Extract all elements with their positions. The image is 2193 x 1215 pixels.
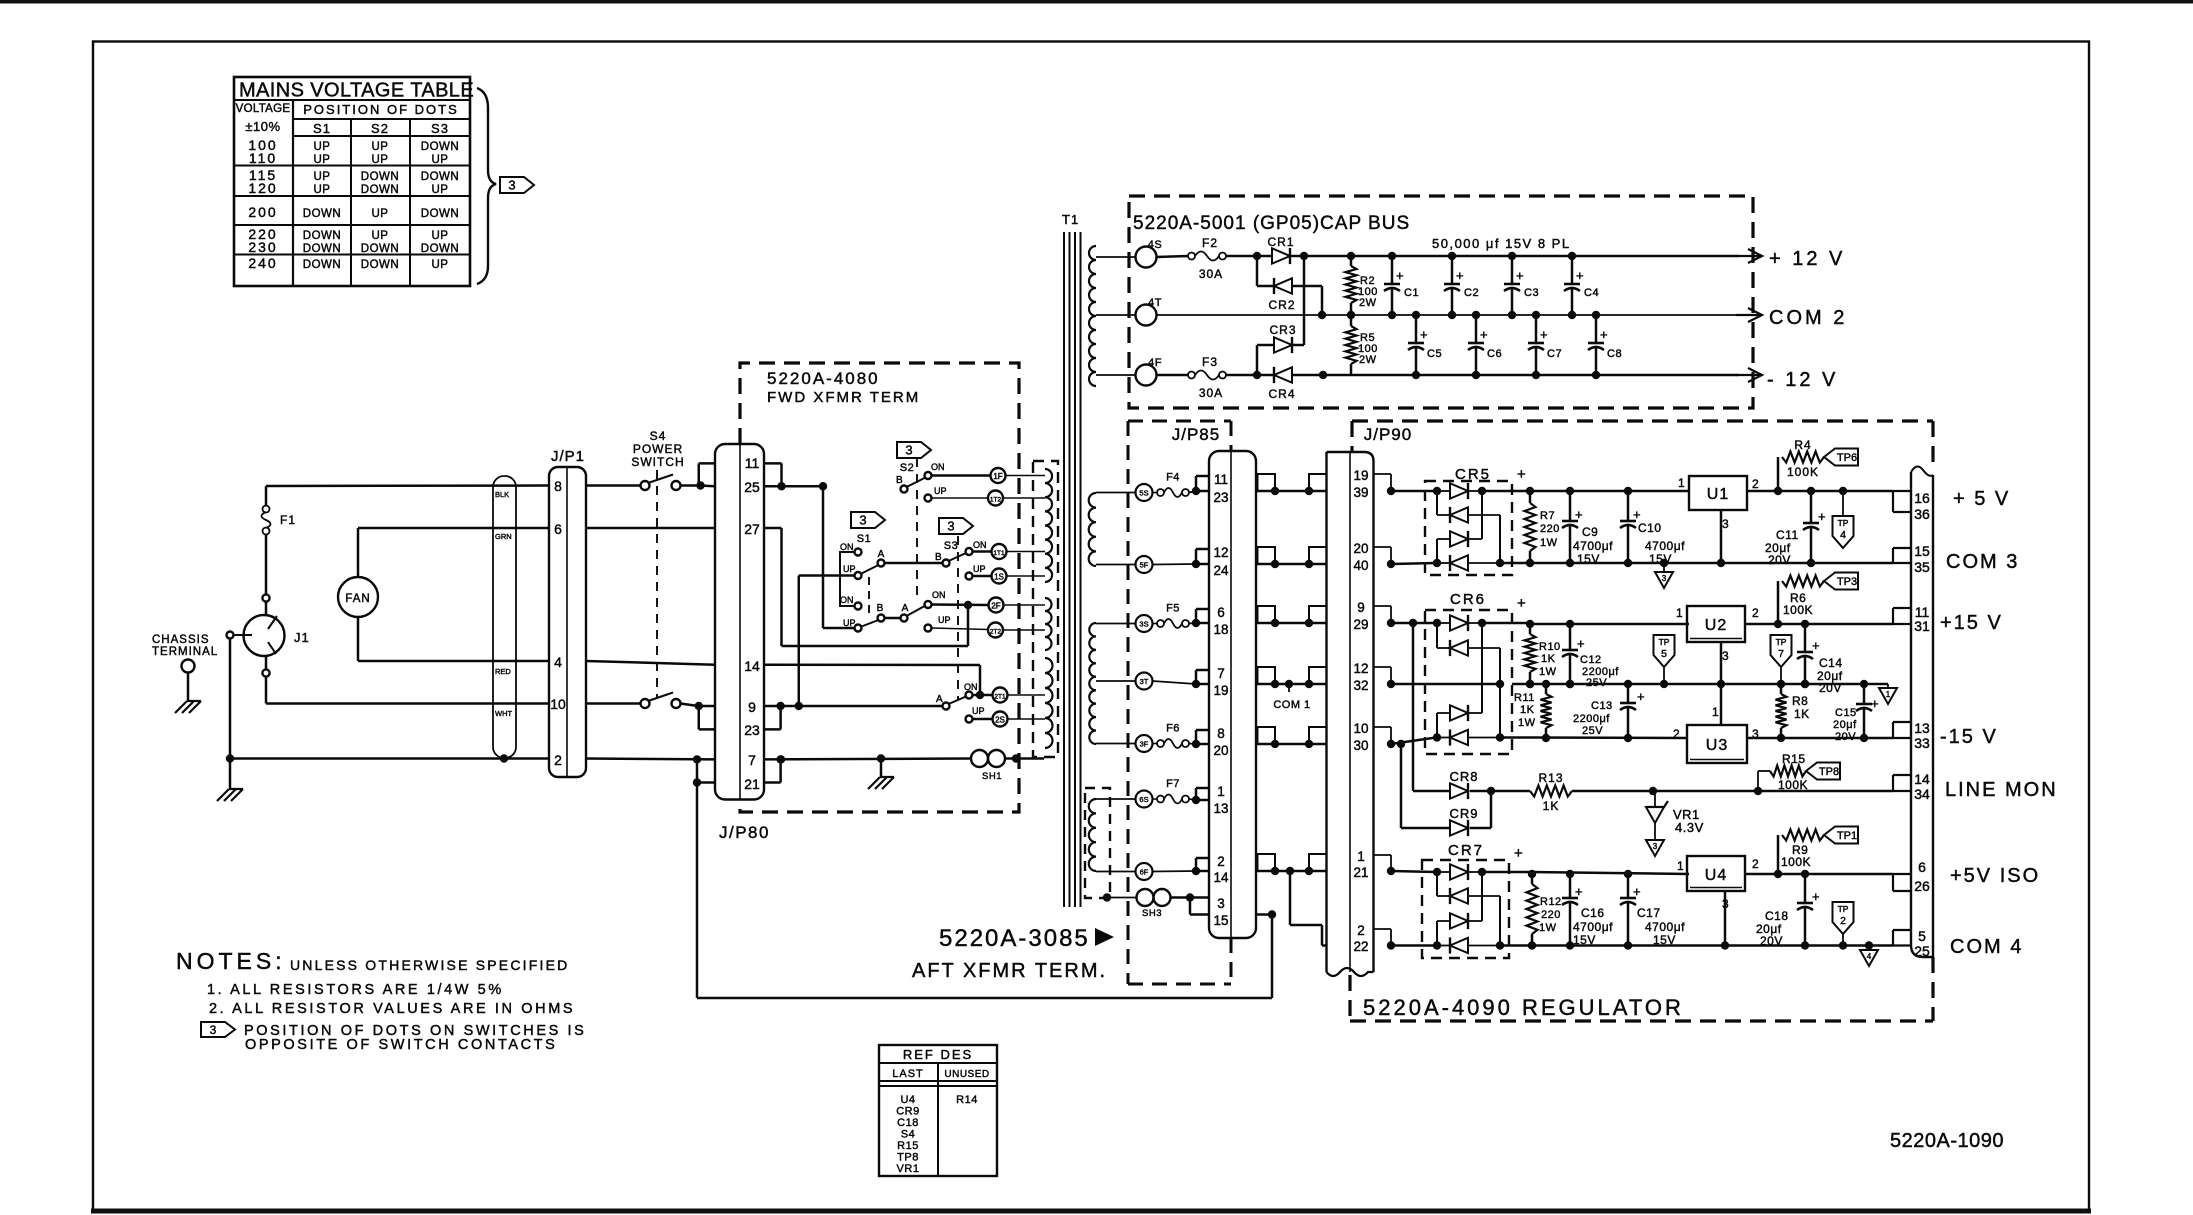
svg-text:2T2: 2T2 xyxy=(990,629,1002,636)
svg-text:50,000 μf 15V 8 PL: 50,000 μf 15V 8 PL xyxy=(1432,236,1571,251)
svg-text:F4: F4 xyxy=(1166,472,1180,484)
svg-text:12: 12 xyxy=(1353,661,1368,676)
svg-text:MAINS VOLTAGE TABLE: MAINS VOLTAGE TABLE xyxy=(239,80,474,102)
svg-text:DOWN: DOWN xyxy=(361,259,399,271)
svg-text:+: + xyxy=(1812,638,1820,653)
svg-text:C15: C15 xyxy=(1835,707,1857,719)
svg-text:4F: 4F xyxy=(1148,357,1162,369)
svg-text:DOWN: DOWN xyxy=(421,208,459,220)
svg-text:1K: 1K xyxy=(1520,704,1535,716)
svg-text:CR9: CR9 xyxy=(1449,806,1478,821)
svg-text:TP: TP xyxy=(1838,904,1849,914)
svg-text:R11: R11 xyxy=(1514,692,1535,704)
svg-text:DOWN: DOWN xyxy=(421,243,459,255)
svg-text:1: 1 xyxy=(1676,606,1683,620)
svg-text:DOWN: DOWN xyxy=(303,259,341,271)
svg-text:UNLESS OTHERWISE SPECIFIED: UNLESS OTHERWISE SPECIFIED xyxy=(290,957,569,973)
svg-text:3: 3 xyxy=(210,1023,217,1037)
svg-text:4: 4 xyxy=(1840,529,1846,541)
svg-text:C9: C9 xyxy=(1582,525,1598,539)
svg-text:OPPOSITE OF SWITCH CONTACTS: OPPOSITE OF SWITCH CONTACTS xyxy=(245,1037,557,1053)
svg-text:+: + xyxy=(1637,689,1645,704)
svg-text:C10: C10 xyxy=(1638,521,1662,535)
svg-text:C8: C8 xyxy=(1607,348,1622,360)
svg-text:6: 6 xyxy=(1918,859,1926,875)
svg-text:+: + xyxy=(1420,327,1428,342)
svg-text:-15 V: -15 V xyxy=(1940,726,1998,748)
svg-text:15: 15 xyxy=(1213,913,1228,928)
svg-text:TP8: TP8 xyxy=(897,1152,919,1164)
svg-text:13: 13 xyxy=(1213,801,1228,816)
svg-text:6S: 6S xyxy=(1139,795,1148,804)
svg-text:UP: UP xyxy=(973,564,986,574)
svg-text:R12: R12 xyxy=(1540,896,1562,908)
svg-text:TP: TP xyxy=(1776,637,1787,647)
svg-text:UNUSED: UNUSED xyxy=(944,1069,989,1080)
svg-text:TP1: TP1 xyxy=(1837,830,1857,842)
svg-text:J/P80: J/P80 xyxy=(719,823,770,842)
svg-text:20: 20 xyxy=(1213,743,1228,758)
svg-text:36: 36 xyxy=(1914,506,1930,522)
svg-text:23: 23 xyxy=(744,722,760,738)
svg-text:BLK: BLK xyxy=(495,490,509,499)
svg-text:3: 3 xyxy=(1653,842,1658,851)
svg-text:1: 1 xyxy=(1677,859,1684,873)
svg-text:5S: 5S xyxy=(1139,489,1148,498)
svg-text:3S: 3S xyxy=(1139,620,1148,629)
svg-text:C13: C13 xyxy=(1591,700,1613,712)
svg-text:A: A xyxy=(878,549,885,560)
svg-text:2T1: 2T1 xyxy=(994,694,1006,701)
svg-text:34: 34 xyxy=(1914,786,1930,802)
svg-text:11: 11 xyxy=(745,455,760,471)
svg-text:C2: C2 xyxy=(1464,287,1479,299)
svg-text:19: 19 xyxy=(1353,468,1368,483)
svg-text:20V: 20V xyxy=(1835,731,1856,743)
svg-text:20μf: 20μf xyxy=(1833,719,1857,731)
svg-text:S3: S3 xyxy=(431,121,449,136)
svg-text:+: + xyxy=(1871,696,1879,711)
svg-text:C14: C14 xyxy=(1819,656,1843,670)
svg-text:110: 110 xyxy=(249,150,277,166)
svg-text:7: 7 xyxy=(1217,666,1225,681)
svg-text:B: B xyxy=(935,552,942,563)
svg-text:+ 5 V: + 5 V xyxy=(1953,488,2010,510)
svg-text:12: 12 xyxy=(1213,545,1228,560)
svg-text:4: 4 xyxy=(554,654,562,670)
svg-text:+: + xyxy=(1456,268,1464,283)
svg-text:COM 1: COM 1 xyxy=(1273,699,1310,711)
svg-text:GRN: GRN xyxy=(495,532,512,541)
svg-text:19: 19 xyxy=(1213,683,1228,698)
svg-text:29: 29 xyxy=(1353,617,1368,632)
svg-text:+: + xyxy=(1540,327,1548,342)
svg-text:16: 16 xyxy=(1914,490,1930,506)
svg-text:+ 12 V: + 12 V xyxy=(1769,248,1845,270)
svg-text:DOWN: DOWN xyxy=(421,171,459,183)
svg-text:DOWN: DOWN xyxy=(303,230,341,242)
svg-text:F6: F6 xyxy=(1166,723,1180,735)
svg-text:S1: S1 xyxy=(313,121,331,136)
svg-text:FAN: FAN xyxy=(345,593,370,605)
svg-text:R14: R14 xyxy=(956,1094,978,1106)
svg-text:100K: 100K xyxy=(1787,465,1819,479)
svg-text:15: 15 xyxy=(1914,543,1930,559)
svg-text:POSITION OF DOTS: POSITION OF DOTS xyxy=(303,102,459,117)
svg-text:UP: UP xyxy=(843,564,856,574)
svg-text:3: 3 xyxy=(1662,574,1667,583)
svg-text:R10: R10 xyxy=(1539,641,1561,653)
svg-text:4700μf: 4700μf xyxy=(1645,539,1685,553)
svg-text:CR4: CR4 xyxy=(1268,387,1295,401)
svg-text:J/P90: J/P90 xyxy=(1364,425,1412,444)
svg-text:COM 4: COM 4 xyxy=(1950,936,2023,958)
svg-text:S4: S4 xyxy=(901,1129,915,1141)
svg-text:120: 120 xyxy=(248,180,277,196)
svg-text:3: 3 xyxy=(1722,649,1729,663)
svg-text:25V: 25V xyxy=(1582,725,1603,737)
svg-text:C17: C17 xyxy=(1637,906,1661,920)
svg-text:3: 3 xyxy=(947,519,954,534)
svg-text:+: + xyxy=(1517,466,1526,483)
svg-text:+5V ISO: +5V ISO xyxy=(1950,865,2040,887)
svg-text:25: 25 xyxy=(744,479,760,495)
svg-text:1K: 1K xyxy=(1541,653,1556,665)
svg-text:NOTES:: NOTES: xyxy=(176,948,286,974)
svg-text:DOWN: DOWN xyxy=(361,243,399,255)
svg-text:C7: C7 xyxy=(1547,348,1562,360)
svg-text:COM 3: COM 3 xyxy=(1946,551,2019,573)
svg-text:C16: C16 xyxy=(1581,906,1605,920)
svg-text:U1: U1 xyxy=(1707,486,1729,503)
svg-text:R7: R7 xyxy=(1540,510,1555,522)
svg-text:2W: 2W xyxy=(1359,354,1377,366)
svg-text:U2: U2 xyxy=(1705,617,1727,634)
svg-text:11: 11 xyxy=(1214,472,1228,487)
svg-text:13: 13 xyxy=(1914,720,1930,736)
svg-text:1K: 1K xyxy=(1543,799,1560,813)
svg-text:UP: UP xyxy=(938,615,951,625)
svg-text:25: 25 xyxy=(1914,943,1930,959)
svg-text:CR2: CR2 xyxy=(1268,298,1295,312)
svg-text:ON: ON xyxy=(840,595,854,605)
svg-text:10: 10 xyxy=(550,696,566,712)
svg-text:DOWN: DOWN xyxy=(303,208,341,220)
svg-text:C18: C18 xyxy=(1765,909,1789,923)
svg-text:5F: 5F xyxy=(1140,561,1149,570)
svg-text:20V: 20V xyxy=(1768,553,1791,567)
svg-text:F3: F3 xyxy=(1202,355,1218,369)
svg-text:UP: UP xyxy=(972,706,985,716)
svg-text:3F: 3F xyxy=(1140,740,1149,749)
svg-text:+15 V: +15 V xyxy=(1940,612,2003,634)
svg-text:DOWN: DOWN xyxy=(303,243,341,255)
svg-text:4T: 4T xyxy=(1148,297,1162,309)
svg-text:1: 1 xyxy=(1886,690,1891,699)
svg-text:1: 1 xyxy=(1712,705,1719,719)
svg-text:A: A xyxy=(936,694,943,705)
svg-text:3: 3 xyxy=(905,443,912,458)
svg-text:2: 2 xyxy=(1752,606,1759,620)
svg-text:UP: UP xyxy=(934,486,947,496)
svg-text:+: + xyxy=(1577,636,1585,651)
svg-text:3: 3 xyxy=(508,178,515,193)
svg-text:220: 220 xyxy=(1540,523,1560,535)
svg-text:4700μf: 4700μf xyxy=(1573,539,1613,553)
svg-text:2: 2 xyxy=(1752,477,1759,491)
svg-text:UP: UP xyxy=(432,259,449,271)
svg-text:1W: 1W xyxy=(1540,537,1558,549)
svg-text:5220A-4080: 5220A-4080 xyxy=(767,369,880,388)
svg-text:10: 10 xyxy=(1353,721,1368,736)
svg-text:18: 18 xyxy=(1213,622,1228,637)
svg-text:UP: UP xyxy=(314,154,331,166)
svg-text:100K: 100K xyxy=(1781,855,1811,869)
svg-text:- 12 V: - 12 V xyxy=(1767,369,1838,391)
svg-text:UP: UP xyxy=(432,184,449,196)
svg-text:UP: UP xyxy=(314,184,331,196)
svg-text:UP: UP xyxy=(372,230,389,242)
svg-text:UP: UP xyxy=(372,208,389,220)
svg-text:UP: UP xyxy=(432,154,449,166)
svg-text:J/P1: J/P1 xyxy=(551,448,585,465)
svg-text:1W: 1W xyxy=(1518,717,1536,729)
svg-text:SWITCH: SWITCH xyxy=(631,455,684,469)
svg-text:J/P85: J/P85 xyxy=(1172,425,1220,444)
svg-text:C11: C11 xyxy=(1776,528,1799,542)
svg-text:UP: UP xyxy=(432,230,449,242)
svg-text:14: 14 xyxy=(1213,870,1229,885)
svg-text:+: + xyxy=(1633,884,1641,899)
svg-text:2S: 2S xyxy=(995,716,1005,725)
svg-text:S2: S2 xyxy=(371,121,389,136)
svg-text:ON: ON xyxy=(964,682,978,692)
svg-text:5220A-1090: 5220A-1090 xyxy=(1890,1130,2004,1152)
svg-text:8: 8 xyxy=(554,478,562,494)
svg-text:40: 40 xyxy=(1353,558,1368,573)
svg-text:R15: R15 xyxy=(1782,752,1806,766)
svg-text:100K: 100K xyxy=(1778,778,1808,792)
svg-text:SH3: SH3 xyxy=(1142,908,1162,919)
svg-text:20: 20 xyxy=(1353,541,1368,556)
svg-text:21: 21 xyxy=(1353,865,1368,880)
svg-text:35: 35 xyxy=(1914,559,1930,575)
svg-text:U4: U4 xyxy=(900,1094,915,1106)
svg-text:TP3: TP3 xyxy=(1837,576,1857,588)
svg-text:2: 2 xyxy=(1673,727,1680,741)
svg-text:ON: ON xyxy=(973,540,987,550)
svg-text:C6: C6 xyxy=(1487,348,1502,360)
svg-text:B: B xyxy=(877,603,884,614)
svg-text:+: + xyxy=(1480,327,1488,342)
svg-text:SH1: SH1 xyxy=(982,771,1002,782)
svg-text:3: 3 xyxy=(1722,517,1729,531)
svg-text:6: 6 xyxy=(1217,605,1225,620)
svg-text:TP: TP xyxy=(1838,518,1849,528)
svg-text:3: 3 xyxy=(1217,896,1225,911)
svg-text:4700μf: 4700μf xyxy=(1645,920,1685,934)
svg-text:4.3V: 4.3V xyxy=(1675,820,1704,835)
svg-text:+: + xyxy=(1818,509,1826,524)
svg-text:5220A-4090 REGULATOR: 5220A-4090 REGULATOR xyxy=(1363,995,1684,1020)
svg-text:FWD XFMR TERM: FWD XFMR TERM xyxy=(767,389,920,406)
svg-text:VR1: VR1 xyxy=(897,1163,920,1175)
svg-text:ON: ON xyxy=(931,462,945,472)
svg-text:F5: F5 xyxy=(1166,603,1180,615)
svg-text:+: + xyxy=(1516,268,1524,283)
svg-text:2. ALL RESISTOR VALUES ARE: 2. ALL RESISTOR VALUES ARE IN OHMS xyxy=(209,1001,575,1017)
svg-text:TP: TP xyxy=(1659,637,1670,647)
svg-text:21: 21 xyxy=(744,776,760,792)
svg-text:S3: S3 xyxy=(944,540,958,552)
svg-text:+: + xyxy=(1812,889,1820,904)
svg-text:COM 2: COM 2 xyxy=(1769,307,1847,329)
svg-text:23: 23 xyxy=(1213,490,1228,505)
svg-text:22: 22 xyxy=(1353,939,1368,954)
svg-text:+: + xyxy=(1514,845,1523,862)
svg-text:S4: S4 xyxy=(650,429,667,443)
svg-text:LAST: LAST xyxy=(892,1068,924,1080)
svg-text:7: 7 xyxy=(748,752,756,768)
svg-text:5220A-3085: 5220A-3085 xyxy=(939,925,1090,952)
svg-text:±10%: ±10% xyxy=(245,119,280,134)
svg-text:R13: R13 xyxy=(1538,771,1563,785)
svg-text:3T: 3T xyxy=(1140,677,1149,686)
svg-text:2: 2 xyxy=(554,752,562,768)
svg-text:A: A xyxy=(902,603,909,614)
svg-text:CR9: CR9 xyxy=(896,1106,920,1118)
svg-text:+: + xyxy=(1600,327,1608,342)
svg-text:B: B xyxy=(896,475,903,486)
svg-text:32: 32 xyxy=(1353,678,1368,693)
svg-text:S1: S1 xyxy=(857,533,871,545)
svg-text:230: 230 xyxy=(248,239,277,255)
svg-text:CR3: CR3 xyxy=(1269,323,1296,337)
svg-text:REF DES: REF DES xyxy=(903,1047,973,1062)
svg-text:2200μf: 2200μf xyxy=(1573,713,1610,725)
svg-text:VOLTAGE: VOLTAGE xyxy=(236,103,291,115)
svg-text:+: + xyxy=(1575,884,1583,899)
svg-text:UP: UP xyxy=(372,154,389,166)
svg-text:33: 33 xyxy=(1914,735,1930,751)
svg-text:27: 27 xyxy=(744,521,760,537)
svg-text:LINE MON: LINE MON xyxy=(1945,779,2058,801)
svg-text:ON: ON xyxy=(840,542,854,552)
svg-text:F7: F7 xyxy=(1166,778,1180,790)
svg-text:+: + xyxy=(1575,507,1583,522)
svg-text:C3: C3 xyxy=(1524,287,1539,299)
svg-text:100K: 100K xyxy=(1783,603,1813,617)
svg-text:4: 4 xyxy=(1867,952,1872,961)
svg-text:R15: R15 xyxy=(897,1140,919,1152)
svg-text:24: 24 xyxy=(1213,563,1229,578)
svg-text:DOWN: DOWN xyxy=(421,141,459,153)
svg-text:CHASSIS: CHASSIS xyxy=(152,634,210,646)
svg-text:8: 8 xyxy=(1217,726,1225,741)
svg-text:R8: R8 xyxy=(1792,694,1808,708)
svg-text:2: 2 xyxy=(1840,915,1846,927)
svg-text:1W: 1W xyxy=(1539,922,1557,934)
svg-text:1. ALL RESISTORS ARE 1/4W: 1. ALL RESISTORS ARE 1/4W 5% xyxy=(207,982,504,998)
svg-text:1T1: 1T1 xyxy=(993,550,1005,557)
svg-text:7: 7 xyxy=(1778,648,1784,660)
svg-text:5: 5 xyxy=(1661,648,1667,660)
svg-text:39: 39 xyxy=(1353,485,1368,500)
svg-text:U4: U4 xyxy=(1705,867,1727,884)
svg-text:CR7: CR7 xyxy=(1448,842,1484,859)
svg-text:2: 2 xyxy=(1217,854,1225,869)
svg-text:31: 31 xyxy=(1914,618,1930,634)
svg-text:14: 14 xyxy=(744,658,760,674)
svg-text:CR8: CR8 xyxy=(1449,769,1478,784)
svg-text:TERMINAL: TERMINAL xyxy=(152,646,218,658)
svg-text:240: 240 xyxy=(248,255,277,271)
svg-text:30: 30 xyxy=(1353,738,1368,753)
svg-text:2: 2 xyxy=(1357,923,1365,938)
svg-text:1: 1 xyxy=(1357,849,1365,864)
svg-text:2: 2 xyxy=(1752,857,1759,871)
svg-text:3: 3 xyxy=(859,513,866,528)
svg-text:5220A-5001 (GP05)CAP BUS: 5220A-5001 (GP05)CAP BUS xyxy=(1133,213,1410,234)
svg-text:1: 1 xyxy=(1678,476,1685,490)
svg-text:TP6: TP6 xyxy=(1837,452,1857,464)
svg-text:4S: 4S xyxy=(1148,239,1162,251)
svg-text:6F: 6F xyxy=(1140,868,1149,877)
svg-text:4700μf: 4700μf xyxy=(1573,920,1613,934)
svg-text:1W: 1W xyxy=(1539,666,1557,678)
svg-text:14: 14 xyxy=(1914,771,1930,787)
svg-text:T1: T1 xyxy=(1062,212,1079,227)
svg-text:AFT XFMR TERM.: AFT XFMR TERM. xyxy=(912,960,1107,982)
svg-text:1: 1 xyxy=(1217,784,1225,799)
svg-text:C1: C1 xyxy=(1404,287,1419,299)
svg-text:S2: S2 xyxy=(900,462,914,474)
svg-text:9: 9 xyxy=(748,699,756,715)
svg-text:RED: RED xyxy=(495,667,511,676)
svg-text:J1: J1 xyxy=(294,630,310,645)
svg-text:6: 6 xyxy=(554,521,562,537)
svg-text:5: 5 xyxy=(1918,928,1926,944)
svg-text:26: 26 xyxy=(1914,878,1930,894)
svg-text:U3: U3 xyxy=(1706,737,1728,754)
svg-text:C18: C18 xyxy=(897,1117,919,1129)
svg-text:POWER: POWER xyxy=(633,442,683,456)
svg-text:DOWN: DOWN xyxy=(361,171,399,183)
svg-text:+: + xyxy=(1633,507,1641,522)
svg-text:F2: F2 xyxy=(1202,236,1218,250)
svg-text:+: + xyxy=(1517,595,1526,612)
svg-text:30A: 30A xyxy=(1199,267,1223,281)
svg-text:DOWN: DOWN xyxy=(361,184,399,196)
svg-text:C12: C12 xyxy=(1580,654,1602,666)
svg-text:F1: F1 xyxy=(280,513,296,527)
svg-text:R4: R4 xyxy=(1794,438,1811,452)
svg-text:C4: C4 xyxy=(1584,287,1599,299)
svg-text:2F: 2F xyxy=(991,602,1000,611)
svg-text:WHT: WHT xyxy=(495,709,512,718)
svg-text:200: 200 xyxy=(248,204,277,220)
svg-text:2W: 2W xyxy=(1359,297,1377,309)
svg-text:C5: C5 xyxy=(1427,348,1442,360)
svg-text:CR1: CR1 xyxy=(1267,235,1294,249)
svg-text:+: + xyxy=(1576,268,1584,283)
svg-text:UP: UP xyxy=(372,141,389,153)
svg-text:1F: 1F xyxy=(993,472,1002,481)
svg-text:CR5: CR5 xyxy=(1455,466,1491,483)
svg-text:ON: ON xyxy=(932,590,946,600)
svg-text:CR6: CR6 xyxy=(1450,591,1486,608)
svg-text:1T2: 1T2 xyxy=(990,497,1002,504)
